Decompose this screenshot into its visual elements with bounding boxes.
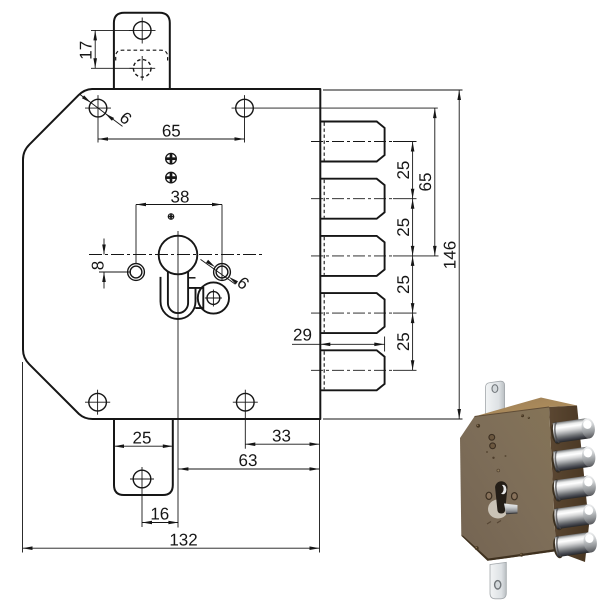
photo: stamped marks <box>487 522 491 525</box>
photo: bottom edge shade <box>461 536 556 561</box>
svg-text:25: 25 <box>394 161 413 180</box>
dimension 132 (body width) <box>22 362 24 553</box>
svg-text:146: 146 <box>441 241 460 269</box>
photo: keyhole side holes <box>486 492 492 499</box>
dimension 25 (bottom tab width) <box>114 445 173 447</box>
screw mark 1 <box>166 153 177 164</box>
dimension 16 (tab hole to cylinder axis) <box>141 491 143 527</box>
photo: keyhole <box>495 481 507 513</box>
euro cylinder circle <box>159 236 198 275</box>
top mounting tab <box>114 13 170 89</box>
svg-text:16: 16 <box>150 504 169 523</box>
svg-text:25: 25 <box>394 332 413 351</box>
euro cylinder stem <box>168 271 188 313</box>
body bottom-left hole <box>89 393 107 411</box>
photo: keyhole glow <box>488 500 508 519</box>
photo: upper screw holes <box>489 434 495 440</box>
small screw mark 3 <box>168 214 174 220</box>
dimension 65 (top hole row to bolt 3) <box>434 108 436 256</box>
photo: strike plate bottom tab <box>490 562 506 599</box>
dimension chain 25x4 (bolt spacing) <box>412 142 414 371</box>
left fixing hole <box>128 264 145 281</box>
svg-text:17: 17 <box>77 41 96 60</box>
deadbolt 3 <box>320 236 384 276</box>
body top-left hole <box>89 99 107 117</box>
cylinder escutcheon outer outline <box>161 277 196 319</box>
photo: tiny face dots <box>486 451 488 453</box>
dimension 29 (bolt throw) <box>292 343 385 345</box>
deadbolt 1 <box>320 122 384 162</box>
top tab hole (solid) <box>133 22 151 40</box>
bracket to knob <box>188 288 203 308</box>
deadbolt 2 <box>320 179 384 219</box>
deadbolt 4 <box>320 293 384 333</box>
deadbolt 5 <box>320 350 384 390</box>
top tab hole (hidden, dashed) <box>133 60 151 78</box>
photo: strike plate top tab <box>486 381 505 415</box>
photo bolt 1 <box>550 416 597 444</box>
dimension 146 (body height) <box>323 89 463 91</box>
photo bolt 2 <box>550 445 597 473</box>
dimension 38 (cylinder fixing holes spacing) <box>135 205 137 264</box>
svg-text:65: 65 <box>416 173 435 192</box>
dimension 65 (top holes spacing) <box>98 138 245 140</box>
photo: lock right side face <box>549 406 589 563</box>
dimension 6 (right hole diameter leader) <box>201 259 236 284</box>
screw mark 2 <box>166 172 177 183</box>
dimension 63 (cylinder axis to right edge) <box>178 468 319 470</box>
photo: keyhole latch lever <box>504 504 518 514</box>
dimension 8 (centerline to hole) <box>99 271 131 273</box>
cylinder vertical centerline <box>177 231 179 528</box>
photo: lock top face <box>475 398 578 417</box>
svg-text:25: 25 <box>133 429 152 448</box>
svg-text:132: 132 <box>169 530 197 549</box>
svg-text:8: 8 <box>89 261 108 270</box>
body top-right hole <box>236 99 254 117</box>
knob circle <box>198 282 229 313</box>
hidden plate edge (dashed) in top tab <box>116 50 168 60</box>
photo bolt 5 <box>552 530 599 558</box>
body bottom-right hole <box>237 393 255 411</box>
bottom tab hole <box>133 470 151 488</box>
right fixing hole <box>214 264 231 281</box>
bottom mounting tab <box>114 419 173 495</box>
dimension 17 (tab hole spacing) <box>91 29 133 31</box>
svg-text:25: 25 <box>394 275 413 294</box>
photo bolt 4 <box>551 502 598 530</box>
svg-text:33: 33 <box>272 427 291 446</box>
photo: face corner screws <box>476 424 480 428</box>
svg-text:63: 63 <box>239 451 258 470</box>
cylinder horizontal centerline <box>89 254 263 256</box>
photo: lock front face <box>460 407 556 561</box>
dimension 6 (top-left hole diameter leader) <box>80 95 123 127</box>
lock body outline <box>23 89 320 419</box>
photo bolt 3 <box>551 474 598 502</box>
photo: ridge seam <box>475 407 550 417</box>
dimension 33 (hole to right edge) <box>245 443 319 445</box>
svg-text:38: 38 <box>171 187 190 206</box>
svg-text:29: 29 <box>293 325 312 344</box>
svg-text:25: 25 <box>394 218 413 237</box>
svg-text:65: 65 <box>162 122 181 141</box>
